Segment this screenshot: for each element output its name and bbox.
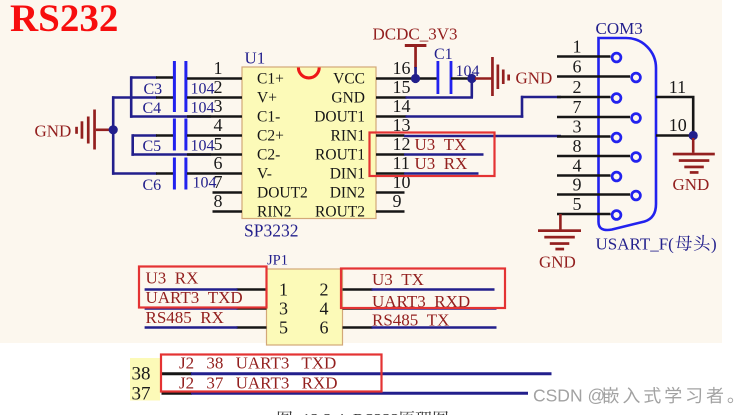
svg-text:RIN1: RIN1 (331, 128, 365, 145)
svg-text:U3 RX: U3 RX (146, 269, 199, 288)
highlight box JP1 right nets (341, 269, 505, 309)
svg-text:J2 37 UART3 RXD: J2 37 UART3 RXD (179, 374, 338, 393)
svg-text:1: 1 (214, 58, 223, 78)
svg-text:2: 2 (214, 77, 223, 97)
svg-text:8: 8 (214, 191, 223, 211)
highlight box around U3_TX / U3_RX (370, 133, 495, 177)
svg-text:5: 5 (279, 318, 288, 338)
node junction dot (GND bus) (109, 125, 118, 134)
svg-text:37: 37 (132, 384, 151, 405)
U1 left pin stubs (pins 1-8) (187, 77, 242, 80)
COM3 pin holes (612, 53, 621, 62)
node junction dot (pin10 to GND) (689, 131, 698, 140)
svg-text:VCC: VCC (333, 71, 365, 88)
svg-text:5: 5 (573, 194, 582, 214)
connector JP1 body (267, 269, 343, 345)
svg-text:15: 15 (393, 77, 411, 97)
svg-text:9: 9 (573, 174, 582, 194)
wire C1 to GND junction (451, 77, 469, 80)
svg-text:GND: GND (35, 121, 72, 140)
svg-text:7: 7 (573, 97, 582, 117)
wire J2 pin38 net UART3_TXD (162, 372, 193, 375)
svg-text:9: 9 (393, 191, 402, 211)
ground GND (right of COM3) (673, 153, 715, 156)
svg-text:U1: U1 (245, 49, 266, 68)
svg-text:U3 TX: U3 TX (372, 270, 424, 289)
svg-text:104: 104 (191, 100, 215, 117)
svg-text:8: 8 (573, 136, 582, 156)
svg-text:16: 16 (393, 58, 411, 78)
node junction dot (VCC net) (411, 74, 420, 83)
svg-text:DOUT2: DOUT2 (257, 185, 308, 202)
svg-text:COM3: COM3 (596, 19, 643, 38)
op-amp U1 SP3232 body (242, 67, 376, 219)
svg-text:104: 104 (191, 138, 215, 155)
svg-text:C1-: C1- (257, 109, 280, 126)
capacitor C1 value 104 (437, 61, 440, 94)
svg-text:1: 1 (279, 280, 288, 300)
svg-text:CSDN @: CSDN @ (533, 386, 605, 406)
svg-text:GND: GND (673, 175, 710, 194)
svg-text:U3 RX: U3 RX (415, 154, 468, 173)
svg-text:RS485 TX: RS485 TX (372, 311, 449, 330)
wire pin10 to ground (692, 138, 695, 153)
svg-text:6: 6 (214, 153, 223, 173)
svg-text:U3 TX: U3 TX (415, 135, 467, 154)
svg-text:JP1: JP1 (267, 253, 288, 269)
svg-text:DOUT1: DOUT1 (314, 109, 365, 126)
highlight box J2 nets (161, 355, 382, 392)
svg-text:DCDC_3V3: DCDC_3V3 (373, 25, 458, 44)
svg-text:ROUT1: ROUT1 (315, 147, 365, 164)
wire vertical pin4-pin5 (C2+/C2-) (131, 134, 134, 156)
wire bus vertical (V+ / V- to GND) (112, 96, 115, 175)
svg-text:ROUT2: ROUT2 (315, 204, 365, 221)
wire C1+ (pin1) left segment (131, 76, 157, 79)
svg-text:GND: GND (331, 90, 365, 107)
svg-text:UART3 RXD: UART3 RXD (372, 292, 470, 311)
svg-text:RS232: RS232 (10, 0, 118, 40)
svg-text:11: 11 (669, 77, 686, 97)
wire junction to ground (top) (475, 77, 492, 80)
wire J2 pin37 net UART3_RXD (162, 392, 193, 395)
svg-text:6: 6 (320, 318, 329, 338)
svg-text:UART3 TXD: UART3 TXD (146, 288, 243, 307)
svg-text:104: 104 (191, 81, 215, 98)
wire V- (pin6) to bus (112, 172, 157, 175)
svg-text:DIN2: DIN2 (330, 185, 365, 202)
capacitor C5 value 104 (173, 119, 176, 151)
svg-text:SP3232: SP3232 (244, 221, 298, 241)
svg-text:2: 2 (573, 77, 582, 97)
wire pin15 riser to GND junction (470, 78, 473, 98)
connector J2 body (partial) (130, 358, 160, 401)
svg-text:3: 3 (573, 116, 582, 136)
svg-text:1: 1 (573, 36, 582, 56)
svg-text:5: 5 (214, 134, 223, 154)
wire COM3 pin5 to ground (559, 214, 562, 230)
svg-text:3: 3 (214, 96, 223, 116)
svg-text:38: 38 (132, 364, 151, 385)
capacitor C6 value 104 (173, 158, 176, 190)
wire V+ (pin2) to bus (112, 96, 157, 99)
svg-text:4: 4 (320, 299, 329, 319)
ground GND (top, near C1) (491, 57, 494, 96)
svg-text:7: 7 (214, 172, 223, 192)
ground GND (below COM3) (538, 229, 581, 232)
wire ROUT1 (pin12) net U3_TX (404, 153, 484, 156)
wire ground to bus junction (96, 129, 110, 132)
svg-text:C6: C6 (143, 177, 162, 194)
highlight box JP1 left nets (139, 267, 267, 308)
svg-text:V+: V+ (257, 90, 277, 107)
svg-text:): ) (711, 235, 717, 254)
wire RIN1 (pin13) to COM3 pin3 (404, 135, 561, 138)
wire DIN1 (pin11) net U3_RX (404, 172, 479, 175)
svg-text:C3: C3 (144, 81, 163, 98)
svg-text:3: 3 (279, 299, 288, 319)
JP1 right pin wires (343, 288, 373, 291)
svg-text:10: 10 (669, 115, 687, 135)
svg-text:C2-: C2- (257, 147, 280, 164)
svg-text:GND: GND (516, 69, 553, 88)
wire vertical pin1-pin3 (C1+/C1-) (130, 76, 133, 118)
svg-text:V-: V- (257, 166, 272, 183)
svg-text:2: 2 (320, 280, 329, 300)
svg-text:J2 38 UART3 TXD: J2 38 UART3 TXD (179, 354, 336, 373)
wire C1- (pin3) under capacitors (130, 115, 211, 118)
svg-text:C2+: C2+ (257, 128, 284, 145)
svg-text:DIN1: DIN1 (330, 166, 365, 183)
ground GND (left, charge-pump bus) (75, 127, 78, 134)
svg-text:USART_F(: USART_F( (596, 235, 675, 254)
U1 right pin stubs (pins 16-9) (376, 77, 437, 80)
svg-text:C1: C1 (434, 46, 453, 63)
svg-text:4: 4 (573, 155, 582, 175)
caption text (cropped) (278, 411, 292, 415)
wire DOUT1 (pin14) to COM3 pin2 (406, 115, 524, 118)
wire C2+ (pin4) left segment (133, 134, 157, 137)
node junction dot (C1/GND/pin15) (467, 74, 476, 83)
svg-text:C5: C5 (143, 138, 162, 155)
svg-text:4: 4 (214, 115, 223, 135)
svg-text:C4: C4 (143, 100, 162, 117)
svg-text:11: 11 (393, 153, 410, 173)
svg-text:RIN2: RIN2 (257, 204, 291, 221)
svg-text:RS485 RX: RS485 RX (146, 308, 224, 327)
JP1 left pin wires (237, 288, 267, 291)
capacitor C3 (with C4, merged plates) value 104 (173, 61, 176, 112)
svg-text:6: 6 (573, 56, 582, 76)
svg-text:14: 14 (393, 96, 411, 116)
COM3 pin stubs (557, 55, 611, 58)
svg-text:C1+: C1+ (257, 71, 284, 88)
svg-text:12.3.4 RS232: 12.3.4 RS232 (302, 410, 399, 415)
svg-text:GND: GND (539, 253, 576, 272)
wire C2- (pin5) under capacitors (131, 153, 211, 156)
